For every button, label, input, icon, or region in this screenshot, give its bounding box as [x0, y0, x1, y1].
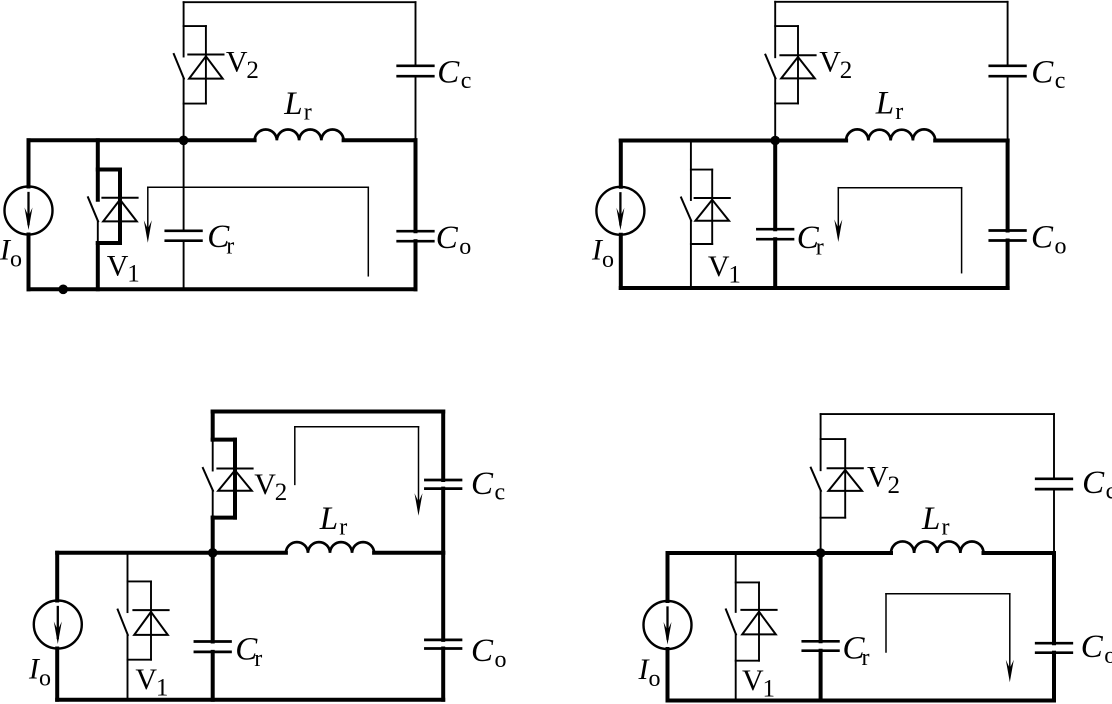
node junction dot circuit 2 [770, 136, 780, 146]
svg-text:C: C [437, 55, 460, 91]
wire Cr branch lower circuit 2 [773, 239, 777, 288]
wire bottom rail circuit 3 [57, 698, 443, 702]
wire top rail circuit 1 [184, 1, 416, 3]
svg-text:1: 1 [156, 674, 169, 701]
svg-text:C: C [436, 220, 459, 256]
svg-text:c: c [495, 480, 506, 506]
capacitor Co circuit 2 [990, 229, 1026, 232]
svg-text:c: c [1055, 68, 1066, 94]
capacitor Cr circuit 2 [757, 228, 793, 231]
svg-text:C: C [471, 466, 494, 502]
svg-text:V: V [226, 45, 248, 78]
current source Io circuit 2 [596, 187, 644, 235]
wire right branch upper (to Cc) circuit 1 [415, 2, 417, 66]
wire resonant rail right segment circuit 1 [344, 138, 416, 142]
capacitor Cr circuit 1 [166, 229, 202, 232]
wire right branch below Co circuit 3 [441, 649, 445, 700]
node bottom rail dot circuit 1 [58, 285, 68, 295]
wire resonant rail left segment circuit 1 [29, 138, 255, 142]
wire right branch below Cc to rail circuit 2 [1007, 76, 1009, 140]
node junction dot circuit 4 [816, 548, 826, 558]
svg-text:2: 2 [888, 472, 901, 499]
wire left branch lower circuit 3 [55, 649, 59, 700]
wire right branch below Cc to rail circuit 3 [441, 489, 445, 553]
wire left branch lower circuit 4 [666, 649, 670, 701]
svg-text:r: r [304, 100, 312, 126]
wire Cr branch upper circuit 2 [773, 141, 777, 230]
current loop arrow circuit 2 [834, 188, 961, 273]
thyristor V2 circuit 4 [811, 414, 863, 553]
thyristor V2 circuit 1 [174, 2, 224, 140]
svg-text:r: r [226, 234, 234, 260]
wire right branch below Co circuit 2 [1006, 241, 1010, 289]
wire top rail circuit 2 [775, 1, 1007, 3]
wire bottom rail circuit 4 [668, 699, 1055, 703]
svg-text:V: V [135, 663, 157, 696]
svg-text:1: 1 [127, 261, 140, 288]
svg-text:r: r [942, 515, 950, 541]
wire Cr branch lower circuit 1 [183, 241, 185, 290]
svg-text:r: r [895, 99, 903, 125]
svg-text:2: 2 [246, 57, 259, 84]
node junction dot circuit 3 [208, 548, 218, 558]
wire right branch upper (to Cc) circuit 3 [441, 412, 445, 481]
wire left branch upper circuit 3 [55, 553, 59, 601]
svg-text:1: 1 [763, 675, 776, 702]
thyristor V2 circuit 2 [765, 2, 815, 141]
svg-text:2: 2 [840, 57, 853, 84]
capacitor Cc circuit 2 [990, 64, 1026, 67]
svg-text:r: r [339, 515, 347, 541]
wire resonant rail left segment circuit 2 [621, 139, 846, 143]
svg-text:2: 2 [275, 479, 288, 506]
wire right branch upper (to Cc) circuit 2 [1007, 2, 1009, 66]
inductor Lr circuit 3 [286, 542, 374, 553]
thyristor V1 circuit 3 [118, 553, 169, 700]
svg-text:o: o [495, 647, 507, 673]
wire resonant rail right segment circuit 3 [374, 551, 443, 555]
wire resonant rail right segment circuit 2 [935, 139, 1007, 143]
wire Cr branch upper circuit 3 [211, 553, 215, 642]
inductor Lr circuit 2 [846, 129, 935, 140]
capacitor Cc circuit 4 [1036, 477, 1072, 480]
node junction dot circuit 1 [179, 136, 189, 146]
thyristor V1 circuit 1 [88, 140, 138, 289]
wire right branch upper (to Cc) circuit 4 [1053, 414, 1055, 479]
capacitor Cc circuit 3 [425, 479, 461, 482]
wire right branch below Co circuit 1 [414, 241, 418, 289]
svg-text:o: o [1055, 234, 1067, 260]
wire resonant rail left segment circuit 4 [668, 551, 892, 555]
wire resonant rail left segment circuit 3 [57, 551, 286, 555]
capacitor Cc circuit 1 [398, 64, 434, 67]
wire right branch rail to Co circuit 2 [1006, 141, 1010, 231]
current source Io circuit 1 [5, 187, 53, 235]
svg-text:c: c [1106, 479, 1112, 505]
wire right branch rail to Co circuit 1 [414, 140, 418, 231]
capacitor Cr circuit 4 [803, 640, 839, 643]
svg-text:o: o [602, 247, 614, 273]
wire Cr branch lower circuit 3 [211, 652, 215, 700]
inductor Lr circuit 4 [891, 541, 984, 553]
wire left branch lower circuit 2 [619, 235, 623, 288]
wire right branch below Cc to rail circuit 4 [1053, 489, 1055, 553]
svg-text:V: V [742, 664, 764, 697]
capacitor Co circuit 1 [398, 230, 434, 233]
wire Cr branch upper circuit 1 [183, 140, 185, 231]
thyristor V1 circuit 4 [726, 553, 777, 701]
svg-text:L: L [283, 86, 302, 122]
svg-text:r: r [862, 645, 870, 671]
svg-text:V: V [819, 46, 841, 79]
svg-text:o: o [10, 247, 22, 273]
current loop arrow circuit 3 [295, 427, 423, 516]
svg-text:V: V [254, 468, 276, 501]
capacitor Co circuit 3 [425, 639, 461, 642]
current source Io circuit 3 [34, 601, 82, 649]
capacitor Cr circuit 3 [195, 640, 231, 643]
wire top rail circuit 4 [821, 413, 1054, 415]
svg-text:V: V [708, 250, 730, 283]
wire Cr branch lower circuit 4 [819, 651, 823, 701]
svg-text:V: V [867, 461, 889, 494]
wire bottom rail circuit 1 [29, 287, 416, 291]
thyristor V2 circuit 3 [203, 412, 253, 553]
svg-text:r: r [816, 235, 824, 261]
svg-text:1: 1 [728, 261, 741, 288]
current source Io circuit 4 [644, 601, 692, 649]
current loop arrow circuit 4 [886, 594, 1014, 682]
svg-text:r: r [254, 646, 262, 672]
wire left branch upper circuit 4 [666, 553, 670, 601]
capacitor Co circuit 4 [1036, 642, 1072, 645]
svg-text:V: V [107, 249, 129, 282]
wire Cr branch upper circuit 4 [819, 553, 823, 641]
wire left branch lower circuit 1 [27, 235, 31, 290]
wire right branch rail to Co circuit 3 [441, 553, 445, 640]
svg-text:C: C [471, 633, 494, 669]
svg-text:o: o [459, 234, 471, 260]
wire bottom rail circuit 2 [621, 286, 1008, 290]
thyristor V1 circuit 2 [681, 141, 730, 289]
svg-text:o: o [1104, 643, 1112, 669]
wire left branch upper circuit 1 [27, 140, 31, 186]
wire right branch below Cc to rail circuit 1 [415, 76, 417, 140]
svg-text:L: L [319, 501, 338, 537]
svg-text:C: C [1081, 629, 1104, 665]
svg-text:C: C [1031, 55, 1054, 91]
wire left branch upper circuit 2 [619, 141, 623, 187]
svg-text:o: o [39, 666, 51, 692]
wire right branch rail to Co circuit 4 [1052, 553, 1056, 643]
svg-text:c: c [461, 68, 472, 94]
svg-text:C: C [1082, 465, 1105, 501]
svg-text:L: L [875, 86, 894, 122]
svg-text:C: C [1031, 220, 1054, 256]
wire right branch below Co circuit 4 [1052, 653, 1056, 701]
inductor Lr circuit 1 [255, 130, 344, 141]
wire top rail circuit 3 [213, 410, 444, 414]
svg-text:L: L [921, 501, 940, 537]
wire resonant rail right segment circuit 4 [984, 551, 1055, 555]
current loop arrow circuit 1 [144, 187, 368, 275]
svg-text:o: o [649, 666, 661, 692]
